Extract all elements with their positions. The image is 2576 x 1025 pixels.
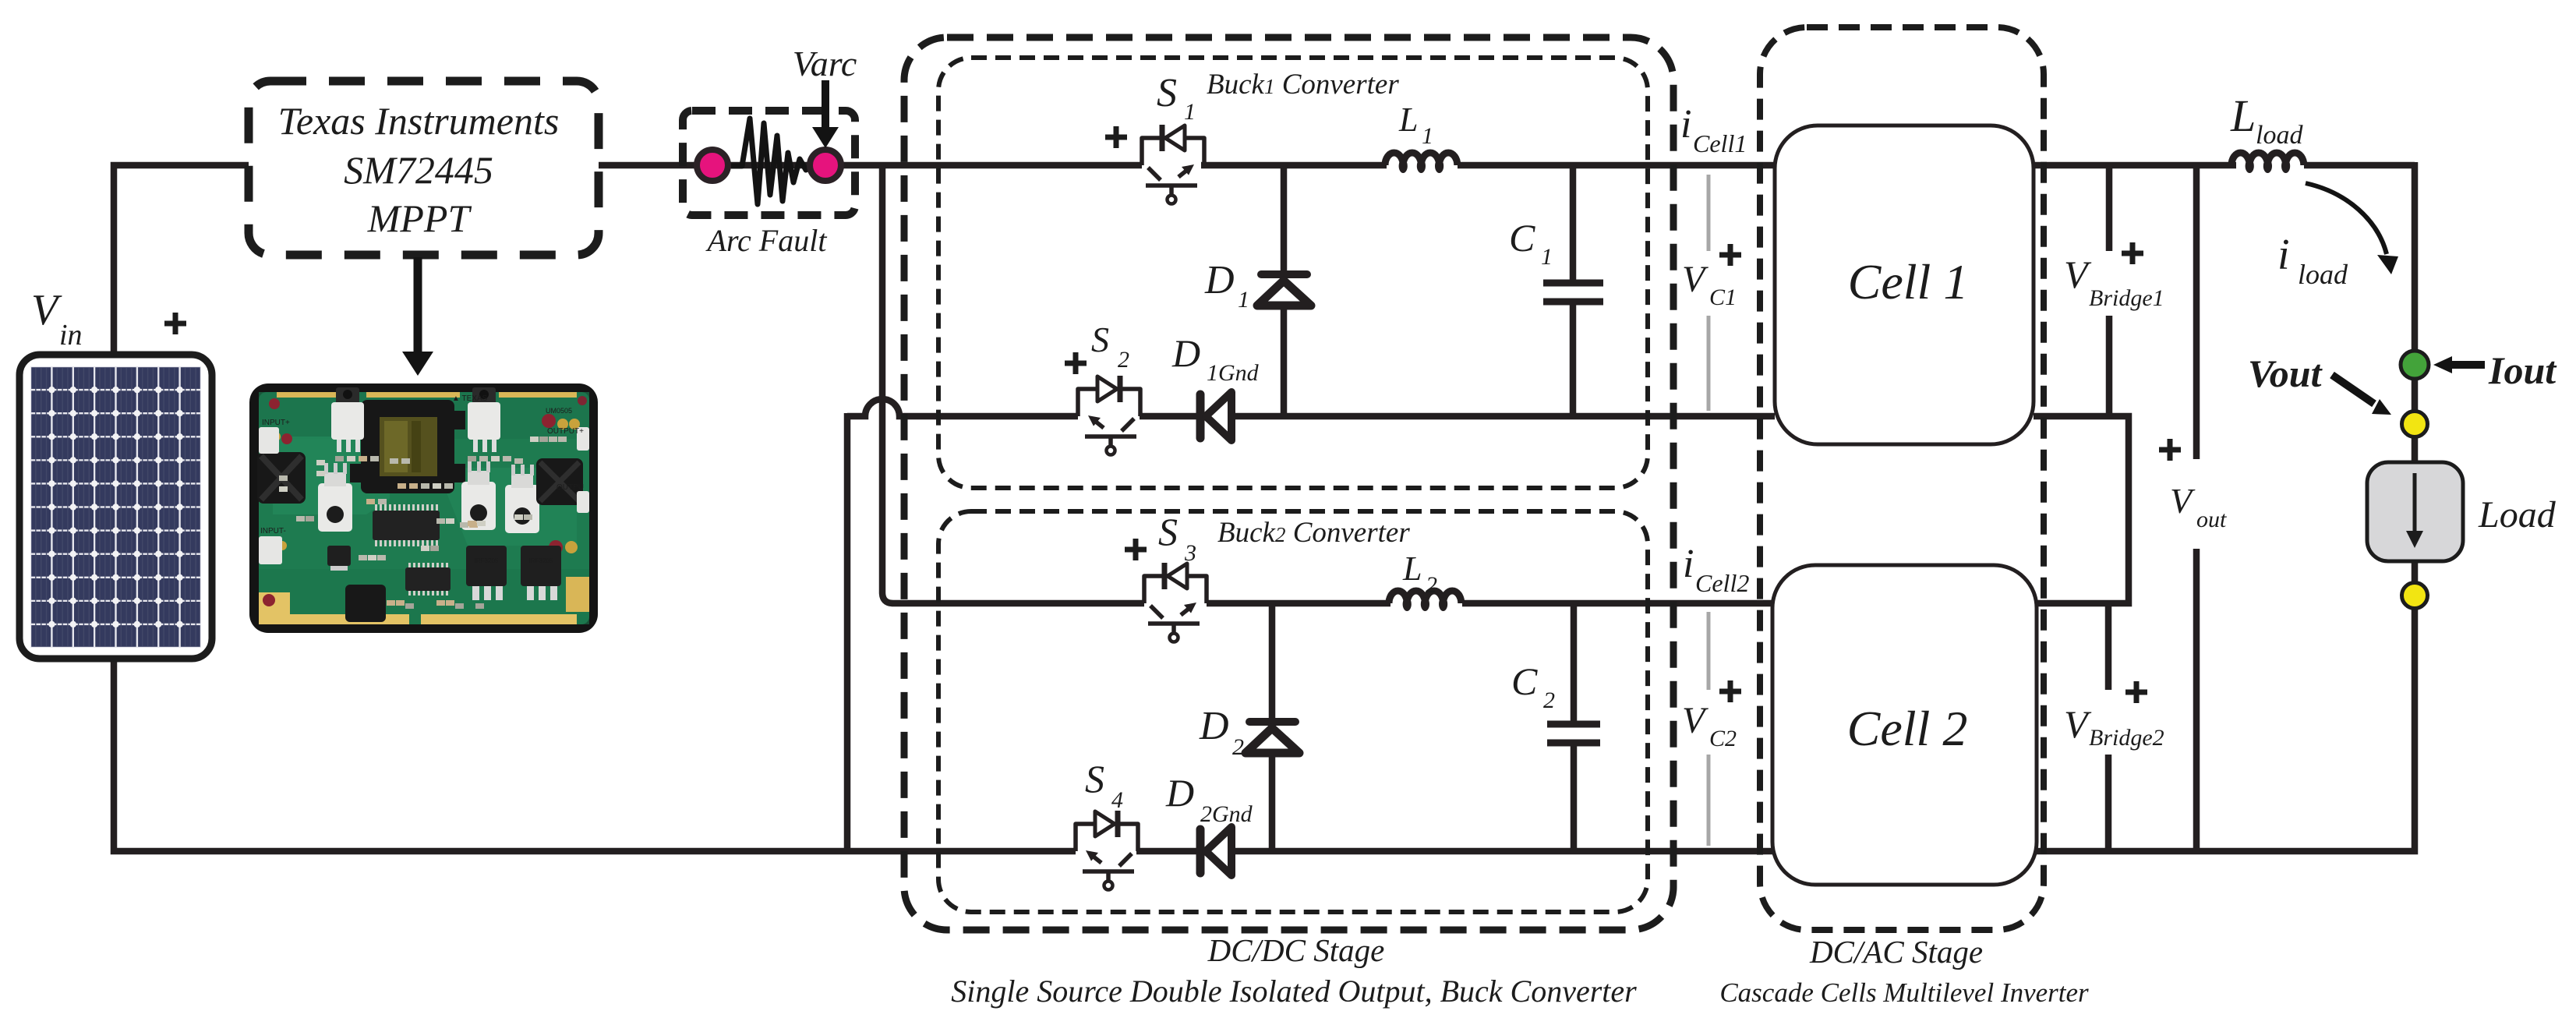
inductor L2 xyxy=(1389,591,1461,611)
label VBridge1 xyxy=(2122,242,2143,264)
panel frame xyxy=(19,355,212,659)
svg-text:Buck1 Converter: Buck1 Converter xyxy=(1207,69,1399,101)
cell 2 box xyxy=(1772,565,2037,885)
svg-text:C: C xyxy=(1509,216,1535,260)
svg-text:L: L xyxy=(2230,90,2256,141)
svg-text:DC/DC Stage: DC/DC Stage xyxy=(1207,932,1385,968)
svg-text:Buck2 Converter: Buck2 Converter xyxy=(1217,517,1410,549)
capacitor C1 plates xyxy=(1543,283,1603,302)
wire: C1 branch vertical xyxy=(1570,165,1577,416)
wire: D2 branch vertical xyxy=(1269,603,1276,851)
svg-text:C1: C1 xyxy=(1709,285,1737,310)
svg-text:2: 2 xyxy=(1543,687,1555,713)
inductor Lload xyxy=(2231,153,2304,173)
svg-text:Iout: Iout xyxy=(2488,348,2557,392)
svg-text:Varc: Varc xyxy=(793,44,857,83)
arrow Iout xyxy=(2451,361,2485,369)
DC/DC stage outer dashed box xyxy=(904,37,1673,930)
svg-text:D: D xyxy=(1165,771,1194,815)
MPPT controller dashed box xyxy=(249,81,599,255)
wire: bottom rail from panel to S4 xyxy=(114,659,1076,851)
svg-text:load: load xyxy=(2298,259,2348,290)
svg-text:Cell 2: Cell 2 xyxy=(1847,701,1968,756)
wire: L1 to Cell1 left xyxy=(1458,162,1775,169)
svg-text:OUTPU: OUTPU xyxy=(557,483,584,492)
svg-text:S: S xyxy=(1085,757,1104,801)
wire: S1 to L1 with D1,C1 junctions xyxy=(1201,162,1387,169)
arrow TI box to PCB xyxy=(414,257,422,352)
svg-text:D: D xyxy=(1171,331,1200,375)
svg-text:2: 2 xyxy=(1426,572,1437,598)
label VBridge2 xyxy=(2125,681,2147,703)
svg-text:1Gnd: 1Gnd xyxy=(1207,360,1260,386)
svg-text:Bridge1: Bridge1 xyxy=(2089,285,2164,311)
svg-text:Vout: Vout xyxy=(2248,352,2323,395)
svg-text:V: V xyxy=(1682,700,1708,741)
arc fault dashed box xyxy=(683,111,855,215)
diode D1 xyxy=(1257,274,1311,306)
arc terminal node left xyxy=(697,150,728,181)
arrow Vout xyxy=(2332,375,2374,404)
svg-text:3: 3 xyxy=(1184,540,1196,566)
svg-text:Bridge2: Bridge2 xyxy=(2089,725,2164,751)
svg-text:MPPT: MPPT xyxy=(367,196,472,240)
wire: Cell1 right to L_load xyxy=(2034,162,2236,169)
wire: S2 to D1Gnd xyxy=(1140,413,1199,420)
svg-text:INPUT+: INPUT+ xyxy=(262,419,290,427)
node Iout terminal (green) xyxy=(2401,351,2429,379)
plus at panel xyxy=(164,313,186,334)
wire: D1Gnd to Cell1 left xyxy=(1230,413,1775,420)
svg-text:i: i xyxy=(2277,231,2290,279)
DC/AC stage dashed box xyxy=(1760,27,2044,930)
svg-text:V: V xyxy=(2170,481,2196,521)
label Vout measure xyxy=(2159,439,2181,461)
diode D2 xyxy=(1246,722,1299,753)
svg-text:1: 1 xyxy=(1541,244,1553,270)
svg-text:S: S xyxy=(1091,320,1109,359)
arc fault zigzag xyxy=(731,118,812,204)
svg-text:i: i xyxy=(1680,102,1691,147)
svg-text:Single Source Double Isolated: Single Source Double Isolated Output, Bu… xyxy=(951,974,1637,1009)
label VC2 xyxy=(1719,680,1741,702)
svg-text:1: 1 xyxy=(1422,123,1433,149)
svg-text:INPUT-: INPUT- xyxy=(260,527,286,535)
Buck2 converter dashed box xyxy=(938,511,1648,912)
wire: D1 branch vertical xyxy=(1281,165,1288,416)
svg-text:load: load xyxy=(2256,121,2303,150)
transistor S2 xyxy=(1078,376,1140,455)
svg-text:Cell2: Cell2 xyxy=(1695,569,1749,597)
wire: VBridge1 measure line xyxy=(2106,165,2113,416)
svg-text:2Gnd: 2Gnd xyxy=(1200,801,1253,827)
arrow iload curved xyxy=(2306,183,2387,254)
arrow Varc down xyxy=(822,80,829,128)
svg-text:SM72445: SM72445 xyxy=(344,148,493,192)
node VC1 gray indicator line xyxy=(1707,175,1711,411)
wire: buck1 lower rail with hop over line B xyxy=(847,399,1078,416)
wire: L_load to load branch corner xyxy=(2304,162,2415,350)
node lower terminal (yellow) xyxy=(2402,583,2428,609)
svg-text:2: 2 xyxy=(1118,347,1129,373)
capacitor C2 plates xyxy=(1547,724,1600,743)
svg-text:V: V xyxy=(1682,259,1708,300)
svg-text:Cell1: Cell1 xyxy=(1693,129,1747,157)
wire: Vout measure line xyxy=(2193,165,2200,851)
svg-text:Texas Instruments: Texas Instruments xyxy=(278,99,560,143)
svg-text:V: V xyxy=(31,286,62,334)
svg-text:DC/AC Stage: DC/AC Stage xyxy=(1809,934,1983,970)
wire: VBridge2 measure line xyxy=(2105,603,2112,851)
Buck1 converter dashed box xyxy=(938,58,1648,488)
svg-text:1: 1 xyxy=(1184,99,1196,125)
wire: line B from top wire down to buck2 input xyxy=(882,165,1144,603)
wire: buck1 lower rail left vertical to bottom rail xyxy=(844,413,851,851)
svg-text:4: 4 xyxy=(1111,787,1123,813)
wire: load chain segments between terminals xyxy=(2412,380,2419,582)
svg-text:IRF3205: IRF3205 xyxy=(529,557,553,564)
node Vout terminal (yellow) xyxy=(2402,412,2428,437)
svg-text:Cell 1: Cell 1 xyxy=(1848,254,1969,309)
svg-text:Load: Load xyxy=(2478,494,2557,535)
svg-text:i: i xyxy=(1683,542,1694,586)
node VC2 gray indicator line xyxy=(1707,612,1711,846)
svg-text:1: 1 xyxy=(1238,287,1249,313)
svg-text:S: S xyxy=(1158,510,1178,553)
arc terminal node right xyxy=(810,150,841,181)
diode D2Gnd xyxy=(1200,827,1231,875)
svg-text:▲ TEXAS: ▲ TEXAS xyxy=(452,394,488,403)
panel cell field xyxy=(30,366,201,648)
transistor S1 xyxy=(1142,125,1204,204)
svg-text:D: D xyxy=(1199,704,1229,748)
svg-text:L: L xyxy=(1402,550,1422,588)
wire: Vin positive lead from panel top to TI box xyxy=(114,165,249,355)
svg-text:out: out xyxy=(2196,507,2227,532)
transistor S3 xyxy=(1144,563,1207,642)
wire: D2Gnd to Cell2 left xyxy=(1230,848,1772,855)
load component box xyxy=(2367,462,2463,561)
svg-text:Cascade Cells Multilevel Inver: Cascade Cells Multilevel Inverter xyxy=(1719,977,2089,1008)
wire: TI box to arc fault and on to S1 xyxy=(599,162,1142,169)
wire: Cell2 right along bottom to load branch xyxy=(2037,609,2415,851)
wire: Cell1 right bottom to series link down to Cell2 top right xyxy=(2034,416,2129,603)
svg-text:in: in xyxy=(59,319,83,352)
svg-text:D: D xyxy=(1204,258,1235,302)
wire: L2 to Cell2 left xyxy=(1462,600,1772,607)
svg-text:Arc Fault: Arc Fault xyxy=(705,223,828,258)
diode D1Gnd xyxy=(1200,392,1231,440)
svg-text:IRF3205: IRF3205 xyxy=(475,557,499,564)
svg-text:S: S xyxy=(1157,71,1177,115)
svg-text:C2: C2 xyxy=(1709,726,1737,751)
svg-text:2: 2 xyxy=(1232,734,1244,760)
svg-text:L: L xyxy=(1398,101,1418,139)
svg-text:C: C xyxy=(1511,659,1538,703)
wire: C2 branch vertical xyxy=(1571,603,1578,851)
cell 1 box xyxy=(1775,125,2034,444)
wire: S4 to D2Gnd xyxy=(1136,848,1199,855)
wire: S3 to L2 with D2 junction xyxy=(1207,600,1390,607)
label VC1 xyxy=(1719,244,1741,266)
svg-text:UM0505: UM0505 xyxy=(546,407,572,415)
inductor L1 xyxy=(1385,153,1458,173)
transistor S4 xyxy=(1076,811,1138,890)
svg-text:OUTPUT+: OUTPUT+ xyxy=(547,427,584,436)
